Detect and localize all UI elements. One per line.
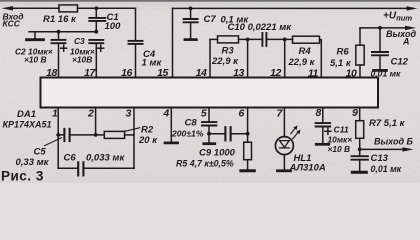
IC DA1 КР174ХА51 <box>3 78 379 130</box>
svg-text:4: 4 <box>162 108 169 120</box>
capacitor C1 <box>89 8 121 32</box>
svg-text:×10 В: ×10 В <box>328 144 351 154</box>
node pin 13 <box>246 38 250 42</box>
wire C10 to R4 <box>267 38 292 40</box>
svg-text:R3: R3 <box>222 46 235 57</box>
pin 1 wire <box>57 108 59 169</box>
svg-text:10мк×: 10мк× <box>328 134 353 144</box>
svg-text:C12: C12 <box>391 56 409 67</box>
svg-text:×10 В: ×10 В <box>24 55 47 65</box>
ground <box>27 32 44 40</box>
svg-text:6: 6 <box>239 108 245 120</box>
svg-text:5: 5 <box>201 108 207 120</box>
svg-text:12: 12 <box>270 67 281 79</box>
svg-text:R4: R4 <box>299 46 312 57</box>
svg-text:16: 16 <box>121 67 132 79</box>
svg-text:0,01 мк: 0,01 мк <box>371 164 402 174</box>
svg-text:C7: C7 <box>204 14 217 25</box>
svg-text:R7 5,1 к: R7 5,1 к <box>369 118 406 129</box>
svg-text:×10В: ×10В <box>72 55 92 65</box>
node pin1/C5 <box>56 133 60 137</box>
node C1/C3 tap <box>94 30 98 34</box>
svg-text:А: А <box>402 37 410 47</box>
label Выход А <box>386 29 416 47</box>
LED HL1 <box>275 108 325 174</box>
svg-text:100: 100 <box>105 21 122 32</box>
svg-text:20 к: 20 к <box>138 135 158 146</box>
svg-text:R2: R2 <box>141 125 154 136</box>
resistor R6 <box>330 28 364 78</box>
svg-text:R6: R6 <box>337 47 350 58</box>
+Uпит rail wire <box>173 6 418 10</box>
pin 15 wire (Vcc) <box>172 8 174 77</box>
capacitor C8 <box>171 108 216 144</box>
svg-text:C5: C5 <box>34 146 47 157</box>
node output B <box>358 148 362 152</box>
wire R3 to C10 <box>239 38 262 40</box>
capacitor C3 (electrolytic) <box>70 36 104 78</box>
svg-text:3: 3 <box>126 108 132 120</box>
resistor R4 <box>288 36 320 68</box>
wire pin14 corner to R3 <box>210 39 218 77</box>
resistor R2 <box>104 125 158 146</box>
resistor R7 <box>356 108 406 156</box>
svg-text:8: 8 <box>316 107 322 119</box>
node C2 tap <box>57 30 61 34</box>
svg-text:200±1%: 200±1% <box>171 129 204 139</box>
capacitor C4 <box>129 8 163 77</box>
capacitor C9 <box>176 127 248 168</box>
pin 11 wire <box>320 40 322 78</box>
node C12 tap <box>378 26 382 30</box>
svg-text:17: 17 <box>84 67 96 79</box>
capacitor C11 (electrolytic) <box>316 108 353 154</box>
resistor R3 <box>211 36 239 67</box>
wire R1 to C4 corner <box>78 7 136 9</box>
node junction C1 top <box>94 6 98 10</box>
output B wire <box>360 136 414 151</box>
svg-text:R5 4,7 к±0,5%: R5 4,7 к±0,5% <box>176 158 234 168</box>
svg-text:14: 14 <box>196 67 207 79</box>
node pin 12 <box>283 38 287 42</box>
svg-text:КСС: КСС <box>3 19 21 29</box>
svg-text:22,9 к: 22,9 к <box>211 56 239 67</box>
pin 13 wire <box>247 39 249 77</box>
svg-text:Рис. 3: Рис. 3 <box>1 169 44 184</box>
svg-text:0,033 мк: 0,033 мк <box>86 152 125 163</box>
pin numbers top row <box>46 67 357 80</box>
pin 4 wire to common <box>165 108 178 143</box>
svg-text:10: 10 <box>346 67 357 79</box>
resistor R1 <box>43 5 78 25</box>
svg-text:C3: C3 <box>74 36 85 46</box>
svg-text:2: 2 <box>87 108 94 120</box>
svg-text:0,33 мк: 0,33 мк <box>16 157 50 168</box>
label Вход КСС <box>3 12 24 29</box>
svg-text:Выход Б: Выход Б <box>374 136 414 146</box>
node pin2 <box>94 133 98 137</box>
svg-text:C10 0,0221 мк: C10 0,0221 мк <box>228 22 293 33</box>
svg-text:C9 1000: C9 1000 <box>199 148 236 159</box>
resistor R5 <box>241 134 254 171</box>
capacitor C12 <box>371 28 409 79</box>
svg-text:Выход: Выход <box>386 29 416 39</box>
capacitor C7 <box>184 8 250 39</box>
capacitor C6 bottom loop <box>58 152 134 175</box>
capacitor C2 (electrolytic) <box>15 32 67 78</box>
svg-text:11: 11 <box>308 67 319 79</box>
input arrow Вход КСС <box>2 6 60 10</box>
ground bus wire <box>29 31 96 33</box>
svg-text:КР174ХА51: КР174ХА51 <box>3 119 52 129</box>
capacitor C5 <box>16 129 96 168</box>
svg-text:C11: C11 <box>334 124 349 134</box>
pin 6 wire <box>247 108 249 134</box>
pin 12 wire <box>284 39 286 77</box>
svg-text:1: 1 <box>52 108 58 120</box>
pin numbers bottom row <box>52 107 358 120</box>
svg-text:9: 9 <box>352 107 358 119</box>
output A wire <box>360 26 416 30</box>
node pin6/R5 <box>246 132 250 136</box>
svg-text:C6: C6 <box>64 152 77 163</box>
svg-text:18: 18 <box>46 67 57 79</box>
svg-text:R1 16 к: R1 16 к <box>43 14 77 25</box>
node C7 tap <box>189 6 193 10</box>
wire R2 to pin3 <box>125 134 134 136</box>
capacitor C13 <box>352 153 402 174</box>
node C9 tap <box>207 132 211 136</box>
svg-text:13: 13 <box>233 67 244 79</box>
pin 2 wire <box>95 108 97 135</box>
svg-text:АЛ310А: АЛ310А <box>289 162 326 173</box>
wire C5 node to R2 <box>96 134 105 136</box>
svg-text:C8: C8 <box>185 117 198 128</box>
capacitor C10 <box>228 22 293 46</box>
svg-text:15: 15 <box>157 67 168 79</box>
svg-text:C13: C13 <box>371 153 389 164</box>
pin 3 wire <box>133 108 135 169</box>
